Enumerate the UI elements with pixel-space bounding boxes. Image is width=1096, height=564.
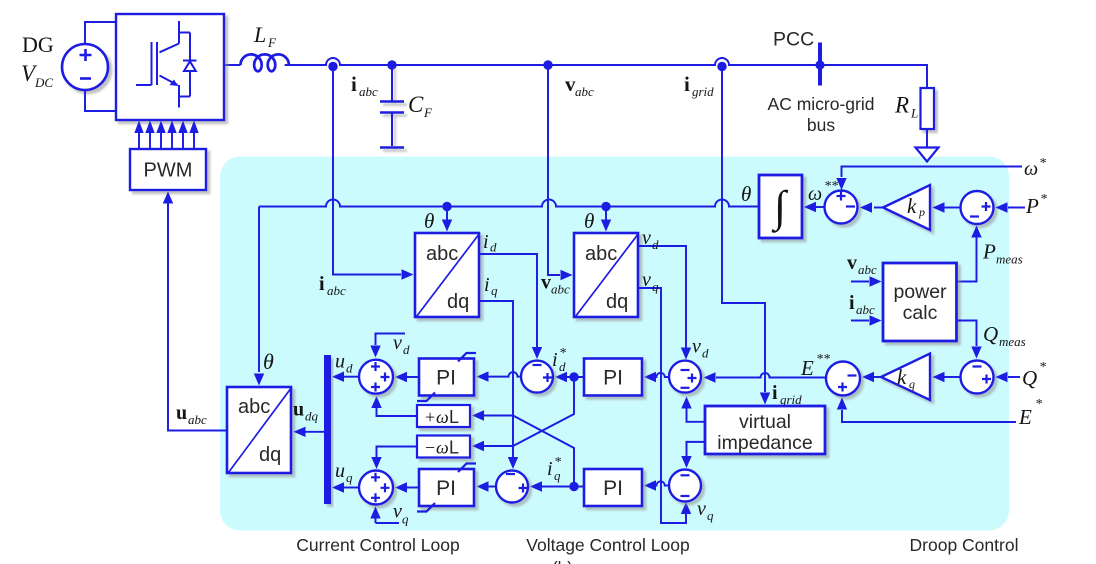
summer u_d (359, 360, 393, 394)
svg-text:AC micro-grid: AC micro-grid (768, 94, 875, 114)
wire: PI current q to u_q summer (406, 487, 419, 489)
svg-text:ω: ω (436, 438, 449, 458)
wire: u_abc to PWM (168, 203, 227, 431)
svg-text:v: v (697, 498, 706, 520)
wire: i_q down (479, 301, 513, 457)
wire: i_d to summer (479, 254, 537, 347)
svg-text:*: * (1040, 192, 1047, 207)
svg-text:i: i (351, 72, 357, 96)
svg-text:d: d (490, 240, 497, 255)
svg-text:θ: θ (584, 209, 594, 233)
svg-text:i: i (319, 273, 325, 295)
wire: PI vd out to i_d* summer (565, 376, 584, 378)
svg-text:bus: bus (807, 115, 835, 135)
svg-text:meas: meas (996, 252, 1023, 267)
cross-coupling wire from i_d* to -wL (484, 377, 574, 446)
diode D (183, 33, 197, 97)
wire: i_grid down to virtual impedance (722, 67, 765, 393)
svg-text:*: * (554, 455, 561, 470)
wire: i_d* summer to PI current d (488, 372, 521, 377)
svg-text:abc: abc (858, 262, 877, 277)
wire: main AC bus (224, 64, 241, 66)
svg-text:i: i (484, 274, 490, 296)
abc/dq block (u output) (227, 387, 291, 473)
svg-text:d: d (346, 361, 353, 376)
integrator block (759, 175, 802, 238)
svg-text:PI: PI (436, 477, 456, 500)
svg-text:v: v (393, 332, 402, 354)
node i_q* junction (569, 482, 578, 491)
svg-text:PWM: PWM (144, 160, 193, 182)
summer i_q* (496, 471, 528, 503)
wire: i_abc into i dq block (333, 67, 401, 275)
wire: theta drop to u dq block (258, 207, 260, 373)
svg-text:ω: ω (436, 407, 449, 427)
wire: bar to u dq block (305, 431, 324, 433)
svg-text:L: L (253, 22, 266, 47)
svg-text:i: i (552, 349, 558, 371)
svg-text:dq: dq (606, 291, 628, 313)
PI block (current q) (419, 469, 474, 506)
svg-text:ω: ω (1024, 158, 1038, 180)
node theta-v junction (601, 202, 610, 211)
svg-text:u: u (335, 460, 345, 482)
svg-text:Q: Q (983, 322, 998, 346)
svg-text:v: v (642, 269, 651, 291)
wire: v_abc into v dq block (548, 65, 560, 275)
resistor R_L (921, 88, 935, 129)
wire: v_q summer to PI (bump) (654, 481, 669, 485)
wire: theta into v dq block (605, 207, 607, 221)
svg-text:*: * (1035, 397, 1042, 412)
virtual impedance block (705, 406, 825, 454)
power calc block (883, 263, 957, 341)
summer i_d* (521, 361, 553, 393)
wire: R_L lead (926, 129, 928, 147)
svg-text:v: v (642, 227, 651, 249)
summer Q (961, 361, 994, 394)
PWM gate arrows (139, 133, 194, 149)
svg-text:v: v (692, 336, 701, 358)
svg-text:v: v (393, 501, 402, 523)
svg-text:p: p (918, 205, 925, 219)
svg-text:grid: grid (692, 84, 714, 99)
svg-text:k: k (907, 194, 917, 218)
capacitor C_F (380, 65, 404, 148)
svg-text:θ: θ (741, 182, 751, 206)
svg-text:calc: calc (903, 302, 938, 324)
svg-text:Voltage Control Loop: Voltage Control Loop (526, 535, 689, 555)
svg-text:u: u (176, 402, 187, 424)
svg-text:d: d (403, 342, 410, 357)
DG source V_DC (62, 44, 108, 90)
svg-text:abc: abc (585, 243, 617, 265)
svg-text:abc: abc (856, 302, 875, 317)
svg-text:PI: PI (603, 477, 623, 500)
summer v_d (669, 361, 701, 393)
wire: i_q* summer to PI current q (488, 486, 496, 488)
svg-text:u: u (293, 399, 304, 421)
wire: u_q to bar (344, 487, 359, 489)
-wL block (417, 436, 470, 458)
wire: v_d to summer (638, 246, 686, 348)
PI block (voltage q) (584, 469, 642, 506)
svg-text:virtual: virtual (739, 411, 791, 433)
svg-text:abc: abc (359, 84, 378, 99)
svg-text:DG: DG (22, 32, 54, 57)
svg-text:E: E (1018, 405, 1032, 429)
svg-text:dq: dq (259, 444, 281, 466)
wire: Q summer to k_q (944, 376, 960, 378)
wire: PI current d to u_d summer (406, 376, 419, 378)
summer omega (droop P) (825, 191, 858, 224)
wire: bus with sensor bumps (285, 58, 927, 88)
svg-text:abc: abc (188, 412, 207, 427)
PWM block (130, 149, 206, 190)
cross-coupling wire from i_q* to +wL (484, 416, 574, 487)
svg-text:θ: θ (424, 209, 434, 233)
svg-text:Q: Q (1022, 366, 1037, 390)
PI block (voltage d) (584, 359, 642, 396)
svg-text:R: R (894, 93, 909, 118)
svg-text:(b): (b) (552, 558, 573, 564)
wire: v_q feedforward hook (376, 517, 400, 523)
svg-text:i: i (684, 72, 690, 96)
svg-text:dq: dq (305, 409, 319, 424)
node i_abc sensor dot (328, 62, 337, 71)
svg-text:q: q (652, 279, 659, 294)
svg-text:**: ** (816, 352, 830, 367)
wire: virtual impedance out to v_q summer (687, 442, 706, 456)
wire: E* line (842, 410, 1016, 422)
summer P (961, 191, 994, 224)
wire: P_meas (957, 237, 977, 282)
node C_F junction (387, 60, 396, 69)
svg-text:P: P (982, 240, 996, 264)
svg-text:ω: ω (808, 183, 822, 205)
ground arrow (916, 148, 939, 162)
svg-text:abc: abc (426, 243, 458, 265)
svg-text:*: * (1039, 156, 1046, 171)
wire: v_d feedforward hook (376, 334, 406, 346)
svg-text:θ: θ (263, 349, 274, 374)
wire: u_d to bar (344, 376, 359, 378)
svg-text:i: i (772, 382, 778, 404)
svg-text:q: q (491, 283, 498, 298)
wire: P* into summer (1008, 207, 1025, 209)
svg-text:d: d (559, 359, 566, 374)
svg-text:L: L (449, 438, 459, 458)
svg-text:DC: DC (34, 75, 53, 90)
control area background (220, 157, 1009, 531)
wire: i_abc into power calc (851, 320, 869, 322)
svg-text:Current Control Loop: Current Control Loop (296, 535, 459, 555)
svg-text:meas: meas (999, 334, 1026, 349)
wire: v_abc into power calc (851, 281, 869, 283)
svg-text:v: v (541, 272, 551, 294)
svg-text:F: F (423, 105, 433, 120)
inductor LF (241, 54, 289, 71)
wire: v_q feed down and into v_q summer bottom (638, 288, 686, 523)
svg-text:L: L (910, 106, 918, 121)
svg-text:abc: abc (575, 84, 594, 99)
svg-text:power: power (893, 281, 947, 303)
wire: source to inverter bottom (85, 90, 116, 111)
PI block (current d) (419, 359, 474, 396)
svg-text:F: F (267, 35, 277, 50)
svg-text:q: q (909, 377, 915, 391)
svg-text:impedance: impedance (717, 432, 812, 454)
svg-text:−: − (425, 438, 435, 458)
svg-text:i: i (547, 458, 553, 480)
svg-text:u: u (335, 351, 345, 373)
svg-text:q: q (554, 468, 561, 483)
svg-text:Droop Control: Droop Control (910, 535, 1019, 555)
svg-text:*: * (559, 346, 566, 361)
wire: +wL to u_d summer (377, 408, 418, 416)
svg-text:v: v (847, 252, 857, 274)
wire: theta into i dq block (446, 207, 448, 221)
summer v_q (669, 470, 701, 502)
svg-text:P: P (1025, 194, 1039, 218)
svg-text:PCC: PCC (773, 29, 814, 51)
inverter box (116, 14, 224, 120)
wire: PI vq out to i_q* summer (542, 486, 584, 488)
wire: E** to v_d summer (bump over i_grid) (716, 373, 826, 377)
node v_abc junction (543, 60, 552, 69)
summer E (826, 362, 860, 396)
svg-text:PI: PI (603, 367, 623, 390)
wire: Q_meas (957, 321, 977, 347)
svg-text:q: q (402, 512, 409, 527)
svg-text:E: E (800, 356, 814, 380)
wire: Q* into summer (1008, 376, 1020, 378)
svg-text:d: d (702, 346, 709, 361)
svg-text:k: k (897, 365, 907, 389)
svg-text:q: q (346, 470, 353, 485)
svg-text:abc: abc (238, 396, 270, 418)
wire: omega* line (842, 167, 1023, 178)
wire: virtual impedance out to v_d summer (687, 408, 706, 422)
u bus bar (324, 355, 331, 504)
svg-text:C: C (408, 92, 424, 117)
wire: omega** into integrator (816, 206, 825, 208)
wire: k_q to E summer (874, 376, 881, 378)
IGBT Q (136, 21, 190, 108)
PCC tick (818, 43, 822, 86)
node i_grid sensor dot (717, 62, 726, 71)
wire: -wL to u_q summer (377, 447, 418, 458)
svg-text:PI: PI (436, 367, 456, 390)
gain k_p triangle (883, 185, 930, 230)
svg-text:dq: dq (447, 291, 469, 313)
wire: source to inverter top (85, 22, 116, 44)
gain k_q triangle (881, 354, 930, 401)
svg-text:i: i (483, 231, 489, 253)
svg-text:d: d (652, 237, 659, 252)
summer u_q (359, 471, 393, 505)
wire: theta line (259, 200, 759, 207)
abc/dq block (current) (415, 233, 479, 317)
svg-text:i: i (849, 292, 855, 314)
svg-text:abc: abc (327, 283, 346, 298)
svg-text:L: L (449, 407, 459, 427)
+wL block (417, 405, 470, 427)
abc/dq block (voltage) (574, 233, 638, 317)
wire: v_d summer to PI (bump) (654, 373, 669, 377)
svg-text:+: + (425, 407, 435, 427)
node theta-i junction (442, 202, 451, 211)
svg-text:*: * (1039, 360, 1046, 375)
node i_d* junction (569, 372, 578, 381)
svg-text:q: q (707, 508, 714, 523)
svg-text:abc: abc (551, 282, 570, 297)
wire: k_p to omega summer (874, 207, 883, 209)
wire: P summer to k_p (944, 207, 960, 209)
